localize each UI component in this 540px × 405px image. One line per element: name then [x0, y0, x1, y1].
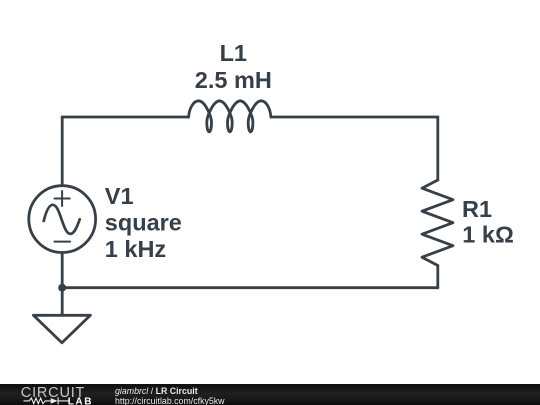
V1 plus sign	[55, 191, 70, 206]
svg-text:L1: L1	[220, 40, 247, 66]
V1 sine wave	[44, 205, 80, 234]
logo diode	[51, 398, 58, 404]
svg-text:square: square	[105, 209, 182, 235]
wire right vertical (R1 bottom to bottom wire)	[436, 266, 439, 288]
node junction dot	[58, 284, 66, 292]
logo squiggle resistor	[24, 398, 51, 404]
svg-text:V1: V1	[105, 183, 134, 209]
wire ground stub	[61, 288, 64, 316]
voltage source V1 circle	[29, 186, 96, 253]
wire left vertical (top corner to V1)	[61, 117, 64, 187]
wire right vertical (top corner to R1)	[436, 117, 439, 180]
resistor R1	[422, 180, 453, 266]
svg-text:2.5 mH: 2.5 mH	[195, 67, 272, 93]
svg-text:giambrcl / LR Circuit: giambrcl / LR Circuit	[115, 386, 198, 396]
svg-text:http://circuitlab.com/cfky5kw: http://circuitlab.com/cfky5kw	[115, 396, 225, 405]
wire bottom horizontal	[62, 286, 438, 289]
ground	[33, 315, 90, 343]
svg-text:LAB: LAB	[68, 396, 93, 405]
svg-text:1 kHz: 1 kHz	[105, 236, 166, 262]
svg-text:1 kΩ: 1 kΩ	[462, 222, 514, 248]
V1 minus sign	[55, 241, 71, 243]
svg-text:R1: R1	[462, 196, 492, 222]
footer bar	[0, 384, 540, 405]
wire top horizontal left	[62, 116, 188, 119]
inductor L1	[189, 101, 271, 132]
wire top horizontal right	[271, 116, 438, 119]
wire left vertical (V1 bottom to node)	[61, 252, 64, 288]
